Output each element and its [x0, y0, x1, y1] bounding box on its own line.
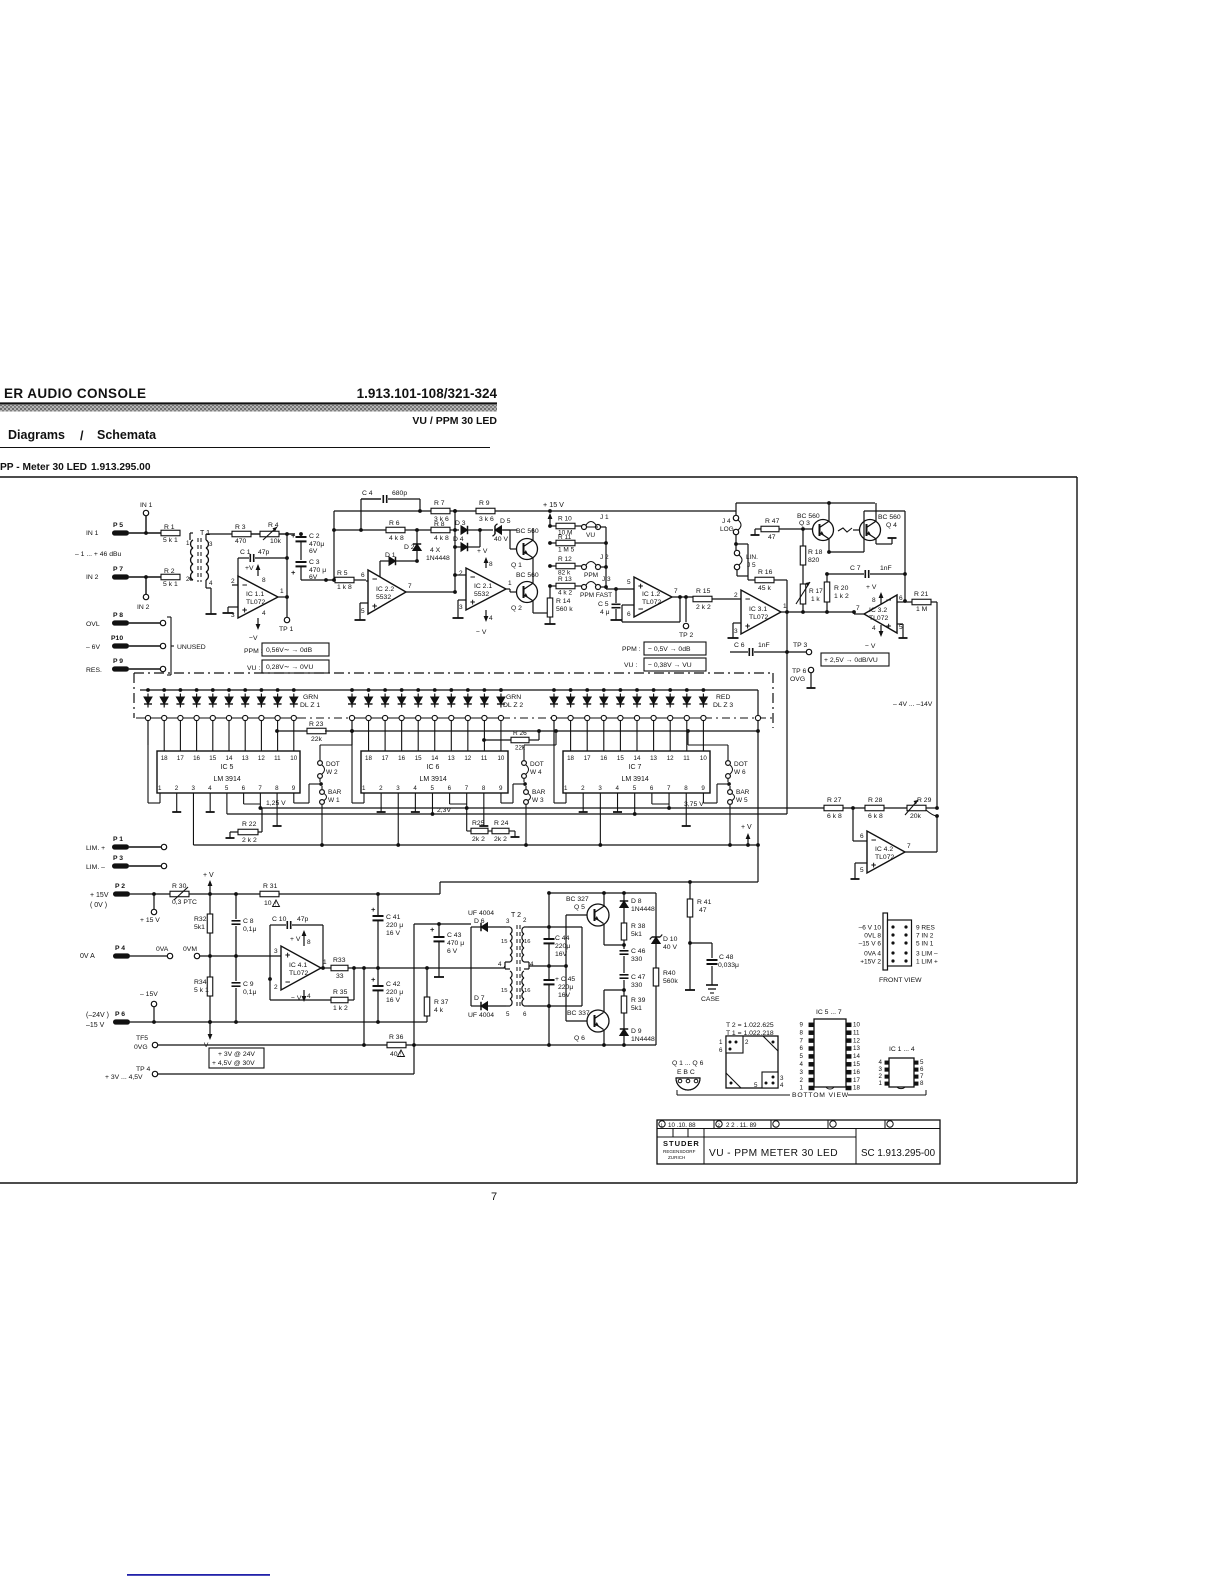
- svg-text:10k: 10k: [270, 538, 282, 545]
- svg-text:R 35: R 35: [333, 989, 348, 996]
- svg-text:C 44: C 44: [555, 935, 570, 942]
- svg-text:4 μ: 4 μ: [600, 609, 610, 616]
- header halftone bar: [0, 405, 497, 412]
- svg-text:GRN: GRN: [303, 694, 318, 701]
- svg-text:5k1: 5k1: [194, 924, 205, 931]
- svg-text:4: 4: [879, 1059, 883, 1066]
- svg-text:14: 14: [634, 755, 641, 762]
- diode D2 vertical: [416, 530, 418, 544]
- svg-text:C 46: C 46: [631, 948, 646, 955]
- zener D10 40V: [655, 893, 657, 937]
- svg-text:47p: 47p: [297, 916, 309, 923]
- resistor R5: [335, 577, 354, 583]
- svg-text:R 41: R 41: [697, 899, 712, 906]
- svg-text:16 V: 16 V: [386, 930, 400, 937]
- svg-text:7: 7: [491, 1191, 497, 1203]
- svg-text:11: 11: [274, 755, 281, 762]
- svg-text:2k 2: 2k 2: [472, 836, 485, 843]
- svg-text:9: 9: [499, 785, 503, 792]
- svg-text:PPM: PPM: [584, 572, 598, 579]
- svg-text:0VM: 0VM: [183, 946, 197, 953]
- svg-text:6: 6: [899, 595, 903, 602]
- svg-text:2 k 2: 2 k 2: [696, 604, 711, 611]
- svg-text:+ 15 V: + 15 V: [543, 500, 564, 509]
- svg-text:Schemata: Schemata: [97, 428, 157, 442]
- IC6 LM3914: [361, 751, 508, 793]
- svg-text:R 17: R 17: [809, 588, 823, 595]
- svg-text:R 24: R 24: [494, 820, 509, 827]
- svg-text:TP 4: TP 4: [136, 1066, 150, 1073]
- svg-text:2 k 2: 2 k 2: [242, 837, 257, 844]
- svg-text:R25: R25: [472, 820, 485, 827]
- test point TP 1: [278, 596, 287, 598]
- wire signal bus y814: [227, 813, 787, 815]
- svg-text:W 6: W 6: [734, 769, 746, 776]
- jumper J3 PPM FAST: [582, 585, 587, 590]
- jumper J1 VU: [582, 525, 587, 530]
- svg-text:UF 4004: UF 4004: [468, 910, 494, 917]
- wire selector bus x606: [605, 527, 607, 589]
- potentiometer R29 20k: [907, 805, 926, 811]
- svg-text:+: +: [242, 605, 247, 615]
- svg-text:–15 V 6: –15 V 6: [859, 941, 882, 948]
- svg-text:BAR: BAR: [532, 789, 546, 796]
- svg-text:10: 10: [700, 755, 707, 762]
- svg-text:+ C 45: + C 45: [555, 976, 575, 983]
- svg-text:– 6V: – 6V: [86, 644, 100, 651]
- svg-text:BAR: BAR: [328, 789, 342, 796]
- label box +3V/+4,5V: [209, 1048, 264, 1068]
- svg-text:R 5: R 5: [337, 570, 348, 577]
- svg-text:P 7: P 7: [113, 566, 123, 573]
- svg-text:0,56V∼ → 0dB: 0,56V∼ → 0dB: [266, 647, 313, 654]
- svg-text:Q 1: Q 1: [511, 562, 522, 569]
- svg-text:+ 3V ... 4,5V: + 3V ... 4,5V: [105, 1074, 143, 1081]
- svg-text:1,25 V: 1,25 V: [266, 800, 286, 807]
- svg-text:IC 3.1: IC 3.1: [749, 606, 767, 613]
- svg-text:3 LIM –: 3 LIM –: [916, 951, 938, 958]
- svg-text:6 V: 6 V: [447, 948, 458, 955]
- svg-text:2 2 . 11. 89: 2 2 . 11. 89: [726, 1122, 757, 1129]
- svg-text:−: −: [285, 977, 290, 987]
- title block frame: [657, 1120, 940, 1164]
- svg-text:IC 1 ... 4: IC 1 ... 4: [889, 1046, 915, 1053]
- svg-text:IC 1.2: IC 1.2: [642, 591, 660, 598]
- test point TP 6 OVG: [808, 667, 813, 672]
- svg-text:TP 6: TP 6: [792, 668, 806, 675]
- svg-text:4: 4: [208, 785, 212, 792]
- svg-text:+ 4,5V @ 30V: + 4,5V @ 30V: [212, 1060, 255, 1067]
- svg-text:1: 1: [280, 588, 284, 595]
- svg-text:470 μ: 470 μ: [309, 567, 326, 574]
- wire x549 center tap to rails: [548, 893, 550, 927]
- svg-text:8: 8: [920, 1080, 924, 1087]
- ground at IC1.1 pin3: [227, 607, 229, 613]
- svg-text:C 8: C 8: [243, 918, 254, 925]
- svg-text:1 LIM +: 1 LIM +: [916, 959, 938, 966]
- svg-text:LIN.: LIN.: [746, 554, 758, 561]
- feedback wire IC1.2: [622, 604, 634, 606]
- LED group DL Z2 green: [350, 688, 354, 692]
- svg-text:T 2 = 1.022.625: T 2 = 1.022.625: [726, 1022, 774, 1029]
- svg-text:R 29: R 29: [917, 797, 932, 804]
- svg-text:6 k 8: 6 k 8: [868, 813, 883, 820]
- wire IC1.2 output: [672, 596, 693, 598]
- ground IC2.1 pin3: [458, 599, 466, 601]
- LED board outline dash-dot: [134, 672, 773, 674]
- svg-text:470: 470: [235, 538, 247, 545]
- IC6 bottom pin wiring: [380, 800, 382, 812]
- svg-text:5: 5: [361, 608, 365, 615]
- wire Q6 emitter collector: [603, 1030, 605, 1045]
- svg-text:TL072: TL072: [246, 599, 265, 606]
- svg-text:TL072: TL072: [749, 614, 768, 621]
- resistor R2: [161, 574, 180, 580]
- potentiometer R17 1k vertical: [800, 584, 806, 604]
- svg-text:6: 6: [719, 1047, 723, 1054]
- svg-text:6: 6: [920, 1066, 924, 1073]
- label box +2,5V to 0dB/VU: [821, 653, 889, 666]
- svg-text:IC 3.2: IC 3.2: [869, 607, 887, 614]
- wire C3 to R5: [301, 579, 326, 581]
- svg-text:LM 3914: LM 3914: [214, 776, 241, 783]
- wires LED columns to LM3914 pins: [147, 721, 149, 745]
- svg-text:0,1μ: 0,1μ: [243, 926, 256, 933]
- resistor R13: [550, 585, 556, 587]
- svg-text:47p: 47p: [258, 549, 270, 556]
- svg-text:R 6: R 6: [389, 520, 400, 527]
- svg-text:TP 2: TP 2: [679, 632, 693, 639]
- resistor R22 2k2: [230, 831, 238, 833]
- svg-text:330: 330: [631, 982, 643, 989]
- wire top rail y503 Q3 Q4: [736, 502, 875, 504]
- svg-text:2: 2: [459, 570, 463, 577]
- svg-text:P 3: P 3: [113, 855, 123, 862]
- svg-text:LM 3914: LM 3914: [420, 776, 447, 783]
- svg-text:1 M: 1 M: [916, 606, 928, 613]
- svg-text:15: 15: [415, 755, 422, 762]
- svg-text:4: 4: [209, 580, 213, 587]
- svg-text:3: 3: [274, 948, 278, 955]
- svg-text:13: 13: [448, 755, 455, 762]
- svg-text:6: 6: [800, 1045, 804, 1052]
- svg-text:TL072: TL072: [642, 599, 661, 606]
- svg-text:P 5: P 5: [113, 522, 123, 529]
- svg-text:IC 5 ... 7: IC 5 ... 7: [816, 1009, 842, 1016]
- svg-text:470 μ: 470 μ: [447, 940, 464, 947]
- svg-text:IC 4.1: IC 4.1: [289, 962, 307, 969]
- svg-text:− V: − V: [476, 629, 487, 636]
- jumpers W6 DOT / W5 BAR for IC7: [726, 761, 731, 766]
- svg-text:+: +: [285, 950, 290, 960]
- svg-text:VU :: VU :: [624, 662, 637, 669]
- LED group DL Z3 red: [552, 688, 556, 692]
- resistor R31 10: [234, 892, 238, 896]
- svg-text:+: +: [291, 531, 296, 540]
- svg-text:16V: 16V: [558, 992, 571, 999]
- capacitor C48 0,033u: [690, 942, 712, 944]
- svg-text:0VA: 0VA: [156, 946, 169, 953]
- svg-text:–15 V: –15 V: [86, 1022, 105, 1029]
- svg-text:7: 7: [856, 605, 860, 612]
- svg-text:5k1: 5k1: [631, 1005, 642, 1012]
- svg-text:2: 2: [745, 1039, 749, 1046]
- test point TP 3: [806, 649, 811, 654]
- svg-text:− V: − V: [291, 995, 302, 1002]
- svg-text:UNUSED: UNUSED: [177, 644, 206, 651]
- svg-text:1N4448: 1N4448: [631, 1036, 655, 1043]
- diode D6 UF4004: [471, 926, 481, 928]
- svg-text:−V: −V: [249, 635, 258, 642]
- svg-text:BC 327: BC 327: [566, 896, 589, 903]
- svg-text:( 0V ): ( 0V ): [90, 902, 107, 909]
- resistor R15: [693, 596, 712, 602]
- ground IC3.1 pin3: [733, 622, 741, 624]
- capacitor C43 470u electrolytic: [438, 924, 440, 936]
- wire R7 input y511: [334, 510, 431, 512]
- svg-text:+: +: [371, 975, 376, 984]
- svg-text:CASE: CASE: [701, 996, 720, 1003]
- svg-text:+: +: [372, 601, 377, 611]
- svg-text:VU / PPM 30 LED: VU / PPM 30 LED: [412, 415, 497, 427]
- diode D9 1N4448: [620, 1029, 628, 1036]
- svg-text:PPM :: PPM :: [622, 646, 641, 653]
- svg-text:DOT: DOT: [530, 761, 544, 768]
- svg-text:0,3 PTC: 0,3 PTC: [172, 899, 197, 906]
- svg-text:D 3: D 3: [455, 520, 466, 527]
- resistor R32 5k1 vertical: [209, 894, 211, 914]
- svg-text:5: 5: [800, 1053, 804, 1060]
- svg-text:7: 7: [800, 1037, 804, 1044]
- svg-text:4: 4: [498, 961, 502, 968]
- svg-text:SC 1.913.295-00: SC 1.913.295-00: [861, 1148, 936, 1159]
- svg-text:C 10: C 10: [272, 916, 287, 923]
- svg-text:C 4: C 4: [362, 490, 373, 497]
- svg-text:15: 15: [853, 1061, 860, 1068]
- svg-text:J 2: J 2: [600, 554, 609, 561]
- svg-text:W 2: W 2: [326, 769, 338, 776]
- op-amp IC2.1 5532: [455, 574, 466, 576]
- svg-text:−: −: [871, 835, 876, 845]
- svg-text:VU: VU: [586, 532, 595, 539]
- op-amp IC4.1 TL072: [281, 946, 321, 990]
- svg-text:R 9: R 9: [479, 500, 490, 507]
- svg-text:5: 5: [860, 867, 864, 874]
- wire pin6 to R21: [897, 601, 912, 603]
- ground IC2.2 pin5: [360, 602, 368, 604]
- svg-text:D 9: D 9: [631, 1028, 642, 1035]
- svg-text:1: 1: [564, 785, 568, 792]
- svg-text:+ V: + V: [477, 548, 488, 555]
- svg-text:D 2: D 2: [404, 544, 415, 551]
- connector P6: [113, 1019, 130, 1024]
- svg-text:18: 18: [161, 755, 168, 762]
- svg-text:5532: 5532: [474, 591, 489, 598]
- svg-text:D 7: D 7: [474, 995, 485, 1002]
- svg-text:E B C: E B C: [677, 1069, 695, 1076]
- svg-text:W 5: W 5: [736, 797, 748, 804]
- ground IC4.2 pin5: [855, 862, 867, 864]
- svg-text:4 k 8: 4 k 8: [389, 535, 404, 542]
- svg-text:2: 2: [523, 917, 527, 924]
- diode D7 UF4004: [481, 1002, 488, 1010]
- svg-text:7 IN 2: 7 IN 2: [916, 933, 934, 940]
- svg-text:4: 4: [262, 610, 266, 617]
- capacitor C45 220u electrolytic: [548, 966, 550, 979]
- svg-text:3: 3: [879, 1066, 883, 1073]
- svg-text:+: +: [638, 581, 643, 591]
- svg-text:4: 4: [800, 1061, 804, 1068]
- svg-text:7: 7: [408, 583, 412, 590]
- svg-text:6: 6: [448, 785, 452, 792]
- capacitor C6 1nF: [730, 651, 748, 653]
- svg-text:4: 4: [489, 615, 493, 622]
- supply arrow +15V to R10 R11: [549, 517, 551, 526]
- svg-text:2: 2: [800, 1077, 804, 1084]
- footer blue rule: [127, 1574, 270, 1576]
- svg-text:+: +: [470, 597, 475, 607]
- svg-text:7: 7: [667, 785, 671, 792]
- potentiometer R4: [260, 531, 279, 537]
- svg-text:W 1: W 1: [328, 797, 340, 804]
- svg-text:7: 7: [258, 785, 262, 792]
- svg-text:13: 13: [853, 1045, 860, 1052]
- op-amp IC1.1 TL072: [232, 584, 238, 586]
- capacitor C1 47p: [238, 557, 249, 559]
- svg-text:10 .10. 88: 10 .10. 88: [668, 1122, 696, 1129]
- svg-text:40 V: 40 V: [494, 536, 508, 543]
- resistor R21 1M: [912, 599, 931, 605]
- svg-text:DL Z 2: DL Z 2: [503, 702, 523, 709]
- resistor R1: [161, 530, 180, 536]
- svg-text:ER AUDIO CONSOLE: ER AUDIO CONSOLE: [4, 386, 146, 401]
- diode D1: [380, 560, 389, 562]
- svg-text:DL Z 3: DL Z 3: [713, 702, 733, 709]
- svg-text:Q 4: Q 4: [886, 522, 897, 529]
- svg-text:R 14: R 14: [556, 598, 571, 605]
- svg-text:16 V: 16 V: [386, 997, 400, 1004]
- svg-text:− 0,5V → 0dB: − 0,5V → 0dB: [648, 646, 691, 653]
- svg-text:R 3: R 3: [235, 524, 246, 531]
- svg-text:470μ: 470μ: [309, 541, 324, 548]
- svg-text:TF5: TF5: [136, 1035, 148, 1042]
- resistor R26 22k: [482, 738, 486, 742]
- svg-text:RES.: RES.: [86, 667, 102, 674]
- svg-text:+ 15 V: + 15 V: [140, 917, 160, 924]
- svg-text:+ 2,5V → 0dB/VU: + 2,5V → 0dB/VU: [824, 657, 878, 664]
- svg-text:7: 7: [920, 1073, 924, 1080]
- svg-text:1: 1: [362, 785, 366, 792]
- wire IC3.2 output pin7: [854, 613, 864, 615]
- svg-text:DL Z 1: DL Z 1: [300, 702, 320, 709]
- capacitor C47 330: [620, 974, 629, 976]
- resistor R14 560k: [549, 586, 551, 598]
- svg-text:40: 40: [390, 1051, 398, 1058]
- wire feedback bus x334: [333, 511, 335, 580]
- svg-text:C 7: C 7: [850, 565, 861, 572]
- svg-text:IN 2: IN 2: [137, 604, 150, 611]
- capacitor C44 220u electrolytic: [548, 927, 550, 938]
- svg-text:IC 4.2: IC 4.2: [875, 846, 893, 853]
- ground IC3.2 pin5: [897, 623, 903, 625]
- svg-text:6 k 8: 6 k 8: [827, 813, 842, 820]
- resistor R11: [550, 542, 556, 544]
- svg-text:1nF: 1nF: [880, 565, 892, 572]
- svg-text:1N4448: 1N4448: [426, 555, 450, 562]
- svg-text:9 RES: 9 RES: [916, 925, 935, 932]
- svg-text:R 39: R 39: [631, 997, 646, 1004]
- wire TP4 riser x414: [413, 924, 415, 1074]
- svg-text:TL072: TL072: [289, 970, 308, 977]
- svg-text:2: 2: [231, 578, 235, 585]
- IC7 bottom pin wiring: [582, 800, 584, 812]
- jumper J2 PPM: [582, 565, 587, 570]
- svg-text:220 μ: 220 μ: [386, 922, 403, 929]
- svg-text:1 M 5: 1 M 5: [558, 547, 575, 554]
- resistor R28 6k8: [865, 805, 884, 811]
- svg-text:1 k 2: 1 k 2: [333, 1005, 348, 1012]
- svg-text:17: 17: [584, 755, 591, 762]
- svg-text:+ V: + V: [203, 872, 214, 879]
- svg-text:OVG: OVG: [790, 676, 805, 683]
- svg-text:5: 5: [754, 1082, 758, 1089]
- svg-text:W 4: W 4: [530, 769, 542, 776]
- svg-text:12: 12: [258, 755, 265, 762]
- svg-text:R 12: R 12: [558, 556, 572, 563]
- svg-text:DOT: DOT: [734, 761, 748, 768]
- svg-text:VU :: VU :: [247, 665, 260, 672]
- svg-text:6: 6: [650, 785, 654, 792]
- wire T2 secondary loop: [528, 926, 582, 928]
- capacitor C7 1nF: [827, 573, 864, 575]
- svg-text:0VL 8: 0VL 8: [864, 933, 881, 940]
- svg-text:1: 1: [508, 580, 512, 587]
- connector front view diagram: [883, 913, 888, 970]
- op-amp IC1.2 TL072: [634, 577, 672, 617]
- dash-dot gaps in connector row: [298, 717, 349, 719]
- svg-text:(–24V ): (–24V ): [86, 1012, 109, 1019]
- svg-text:5532: 5532: [376, 594, 391, 601]
- svg-text:22k: 22k: [311, 736, 323, 743]
- svg-text:IC 7: IC 7: [629, 764, 642, 771]
- svg-text:7: 7: [907, 843, 911, 850]
- op-amp IC3.1 TL072: [741, 590, 781, 634]
- op-amp IC4.2 TL072: [852, 808, 854, 841]
- svg-text:4 k: 4 k: [434, 1007, 444, 1014]
- test point TP 2: [685, 597, 687, 622]
- svg-text:8: 8: [262, 577, 266, 584]
- svg-text:IC 1.1: IC 1.1: [246, 591, 264, 598]
- resistor R8: [431, 527, 450, 533]
- resistor R3: [232, 531, 251, 537]
- svg-text:R 47: R 47: [765, 518, 780, 525]
- svg-text:D 1: D 1: [385, 552, 396, 559]
- resistor R36 40: [387, 1042, 406, 1048]
- svg-text:8: 8: [275, 785, 279, 792]
- svg-text:IN 1: IN 1: [86, 530, 99, 537]
- svg-text:+15V 2: +15V 2: [860, 959, 881, 966]
- svg-text:+: +: [745, 621, 750, 631]
- svg-text:– 1 ... + 46 dBu: – 1 ... + 46 dBu: [75, 551, 122, 558]
- wire y882 top rail power: [440, 881, 758, 883]
- svg-text:3: 3: [191, 785, 195, 792]
- svg-text:Q 6: Q 6: [574, 1035, 585, 1042]
- svg-text:Diagrams: Diagrams: [8, 428, 65, 442]
- svg-text:4: 4: [307, 993, 311, 1000]
- svg-text:R 31: R 31: [263, 883, 278, 890]
- svg-text:P 6: P 6: [115, 1011, 125, 1018]
- wire IC4.2 output to x937: [905, 851, 937, 853]
